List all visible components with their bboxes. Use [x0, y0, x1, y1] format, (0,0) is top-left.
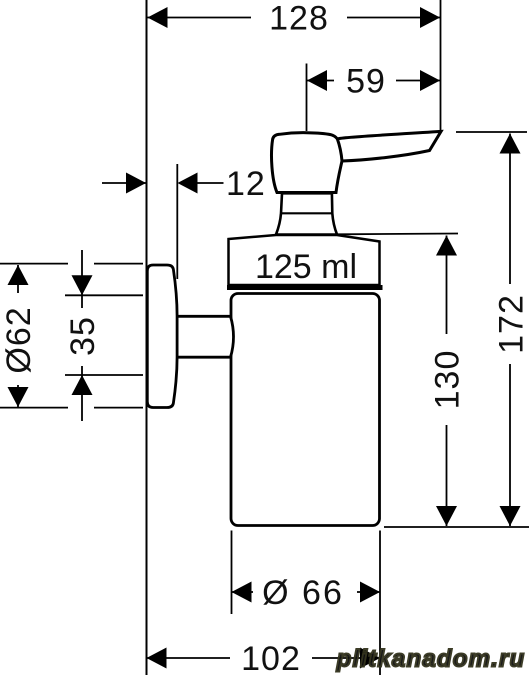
dimension 130 — [429, 236, 467, 527]
pump knob right edge over spout — [337, 139, 342, 161]
dimension D66 extension lines — [232, 531, 381, 675]
svg-text:125 ml: 125 ml — [255, 248, 357, 286]
svg-text:plitkanadom.ru: plitkanadom.ru — [336, 646, 526, 673]
dimension 102 — [147, 640, 381, 675]
svg-text:59: 59 — [346, 63, 386, 101]
dimension 12 — [102, 165, 266, 203]
dimension 130/172 extension line bottom — [384, 526, 529, 528]
dimension 35 extension lines — [65, 295, 143, 375]
dimension 128 — [148, 0, 441, 38]
dimension D62 — [0, 265, 38, 407]
bottle body — [231, 294, 380, 526]
dimension 172 extension line top — [456, 131, 527, 133]
svg-text:12: 12 — [226, 165, 266, 203]
bottle collar band 125 ml — [227, 235, 383, 288]
wall line — [146, 0, 148, 675]
pump neck and skirt — [276, 193, 337, 234]
dimension 128 extension line right — [440, 0, 442, 131]
svg-text:Ø62: Ø62 — [0, 306, 38, 373]
dimension 172 — [493, 134, 529, 527]
svg-text:172: 172 — [493, 294, 529, 354]
pump head knob and spout — [272, 131, 441, 192]
svg-text:Ø 66: Ø 66 — [262, 574, 344, 612]
svg-text:128: 128 — [269, 0, 329, 38]
dimension 130 extension line top — [337, 233, 458, 236]
wall plate — [147, 265, 177, 408]
svg-text:35: 35 — [64, 316, 102, 356]
holder arm — [176, 316, 234, 357]
svg-text:102: 102 — [241, 640, 301, 675]
dimension 35 — [64, 250, 102, 421]
svg-text:130: 130 — [429, 350, 467, 410]
dimension 59 extension line left — [306, 64, 308, 132]
dimension 12 extension line — [176, 164, 178, 279]
dimension D66 — [232, 574, 381, 612]
dimension D62 extension lines — [0, 264, 143, 408]
dimension 59 — [307, 63, 440, 101]
